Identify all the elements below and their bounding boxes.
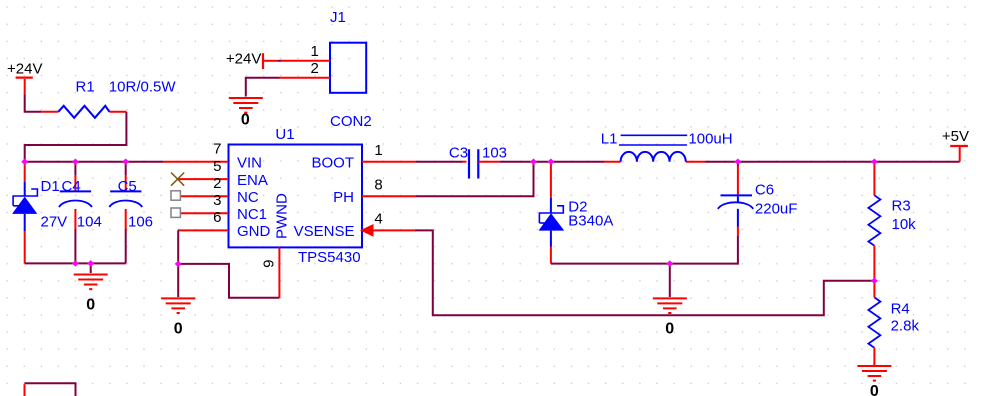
svg-text:106: 106 bbox=[128, 214, 153, 231]
svg-text:CON2: CON2 bbox=[330, 113, 372, 130]
svg-text:R3: R3 bbox=[892, 197, 911, 214]
svg-text:NC: NC bbox=[237, 189, 259, 206]
wire C3 to PH node bbox=[500, 161, 534, 163]
svg-text:PWND: PWND bbox=[274, 193, 291, 239]
power port +24V at J1 bbox=[226, 50, 281, 69]
pin 4 VSENSE bbox=[373, 229, 415, 231]
wire VSENSE feedback bbox=[415, 230, 875, 315]
svg-text:100uH: 100uH bbox=[688, 131, 732, 148]
svg-text:C4: C4 bbox=[62, 178, 81, 195]
wire input bus bbox=[25, 161, 163, 163]
wire PH riser bbox=[416, 162, 534, 197]
pin 2 J1 bbox=[280, 77, 331, 79]
junction bus / C5 bbox=[122, 159, 129, 165]
junction PH node / D2 bbox=[547, 159, 554, 165]
svg-text:U1: U1 bbox=[275, 126, 294, 143]
junction output / C6 bbox=[734, 159, 741, 165]
junction GND net bbox=[175, 261, 182, 267]
ground under D2/C6 bbox=[653, 298, 687, 337]
svg-text:103: 103 bbox=[482, 144, 507, 161]
wire J1 pin2 to ground bbox=[246, 78, 280, 97]
resistor R3 bbox=[868, 162, 916, 281]
wire BOOT to C3 bbox=[416, 161, 463, 163]
wire +24V to R1 bbox=[25, 94, 42, 111]
svg-text:10R/0.5W: 10R/0.5W bbox=[109, 79, 177, 96]
pin 1 J1 bbox=[281, 60, 330, 62]
wire gnd stem bbox=[177, 264, 179, 297]
wire bottom-right rail bbox=[551, 263, 738, 265]
svg-text:7: 7 bbox=[213, 141, 221, 158]
svg-text:D1: D1 bbox=[41, 178, 60, 195]
pin 2 NC bbox=[180, 195, 228, 197]
diode D2 B340A bbox=[539, 162, 614, 264]
wire GND pin6 down bbox=[177, 230, 180, 264]
svg-text:R4: R4 bbox=[891, 300, 910, 317]
svg-text:2: 2 bbox=[213, 175, 221, 192]
svg-text:+24V: +24V bbox=[7, 61, 42, 78]
pin 6 GND bbox=[178, 229, 228, 231]
junction PH node / C3 bbox=[530, 159, 537, 165]
svg-text:0: 0 bbox=[870, 383, 879, 396]
ground under R4 bbox=[857, 366, 891, 396]
svg-text:R1: R1 bbox=[76, 79, 95, 96]
svg-text:B340A: B340A bbox=[568, 212, 613, 229]
svg-text:1: 1 bbox=[311, 43, 319, 60]
svg-text:3: 3 bbox=[213, 192, 221, 209]
junction bottom rail / C4 bbox=[72, 260, 79, 266]
ground under pin6 bbox=[161, 298, 195, 337]
junction bottom rail / ground bbox=[87, 260, 94, 266]
svg-text:PH: PH bbox=[333, 189, 354, 206]
svg-text:1: 1 bbox=[374, 142, 382, 159]
pin 1 BOOT bbox=[362, 161, 416, 163]
pin 7 VIN bbox=[163, 161, 228, 163]
power port +5V bbox=[942, 128, 969, 162]
svg-text:0: 0 bbox=[241, 112, 250, 129]
svg-text:2.8k: 2.8k bbox=[891, 318, 920, 335]
svg-text:NC1: NC1 bbox=[237, 206, 267, 223]
svg-text:104: 104 bbox=[77, 214, 102, 231]
IC U1 TPS5430 bbox=[229, 126, 363, 266]
connector J1 bbox=[280, 9, 372, 130]
partial component bottom-left bbox=[25, 383, 76, 396]
svg-text:C6: C6 bbox=[755, 182, 774, 199]
resistor R4 bbox=[868, 281, 919, 366]
svg-text:ENA: ENA bbox=[237, 172, 268, 189]
junction bus / C4 bbox=[72, 159, 79, 165]
no-connect square pin 2 bbox=[171, 191, 180, 200]
wire R1 return to bus bbox=[25, 112, 127, 162]
svg-text:TPS5430: TPS5430 bbox=[298, 249, 361, 266]
pin 5 ENA bbox=[178, 178, 229, 180]
junction R3 / R4 feedback bbox=[871, 278, 878, 284]
wire L1 to output bbox=[705, 161, 960, 163]
junction output / R3 bbox=[871, 159, 878, 165]
svg-text:GND: GND bbox=[237, 223, 271, 240]
junction bus / D1 bbox=[21, 159, 28, 165]
no-ERC marker X pin 5 bbox=[171, 173, 184, 186]
wire bottom-left rail bbox=[25, 262, 126, 264]
power port +24V top-left bbox=[7, 61, 42, 95]
ground J1 bbox=[229, 98, 263, 129]
wire gnd stem D2/C6 bbox=[669, 264, 671, 297]
input arrow pin 4 bbox=[360, 224, 374, 237]
svg-text:VIN: VIN bbox=[237, 155, 262, 172]
svg-text:9: 9 bbox=[261, 260, 278, 268]
svg-text:+24V: +24V bbox=[226, 50, 261, 67]
resistor R1 bbox=[41, 79, 176, 118]
svg-text:27V: 27V bbox=[41, 214, 68, 231]
pin 9 PWND bbox=[278, 247, 280, 297]
svg-text:0: 0 bbox=[174, 320, 183, 337]
svg-text:0: 0 bbox=[86, 297, 95, 314]
svg-text:4: 4 bbox=[374, 211, 382, 228]
pin 8 PH bbox=[362, 195, 416, 197]
capacitor C5 bbox=[109, 162, 153, 264]
svg-text:+5V: +5V bbox=[942, 128, 969, 145]
svg-text:VSENSE: VSENSE bbox=[294, 223, 355, 240]
no-connect square pin 3 bbox=[171, 208, 180, 217]
svg-text:L1: L1 bbox=[601, 131, 618, 148]
svg-text:J1: J1 bbox=[330, 9, 346, 26]
pin 3 NC1 bbox=[180, 212, 228, 214]
wire ground stub bbox=[90, 263, 92, 273]
svg-text:C3: C3 bbox=[449, 144, 468, 161]
svg-text:8: 8 bbox=[374, 176, 382, 193]
svg-text:2: 2 bbox=[311, 60, 319, 77]
capacitor C4 bbox=[59, 162, 102, 264]
capacitor C3 bbox=[449, 144, 507, 178]
svg-text:0: 0 bbox=[665, 320, 674, 337]
capacitor C6 bbox=[718, 162, 798, 264]
svg-text:220uF: 220uF bbox=[755, 200, 798, 217]
svg-text:10k: 10k bbox=[892, 216, 917, 233]
junction bottom rail / ground D2C6 bbox=[666, 260, 673, 266]
inductor L1 bbox=[601, 131, 733, 162]
wire PH node to L1 bbox=[534, 161, 605, 163]
diode D1 (zener 27V) bbox=[12, 162, 67, 264]
svg-text:C5: C5 bbox=[118, 178, 137, 195]
svg-text:5: 5 bbox=[213, 158, 221, 175]
ground under C4/C5 bbox=[74, 275, 108, 314]
svg-text:6: 6 bbox=[213, 209, 221, 226]
wire to pin 9 bbox=[178, 264, 279, 298]
svg-text:BOOT: BOOT bbox=[311, 155, 354, 172]
